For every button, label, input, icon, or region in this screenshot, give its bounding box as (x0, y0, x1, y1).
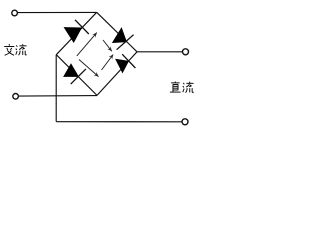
diode D3 (left-bottom edge): cathode bar (71, 69, 86, 84)
label glyph liu (AC label char 2) (16, 44, 27, 55)
wire: bottom rail to bottom-right DC terminal (56, 121, 182, 123)
terminal DC output bottom (182, 119, 188, 125)
diode D4 (bottom-right edge): cathode bar (122, 54, 135, 68)
current arrow through D3 (79, 60, 99, 77)
wire: bottom-left AC terminal to bottom node (crosses vertical wire) (18, 95, 97, 98)
diode D1 (left-top edge): triangle (64, 28, 81, 43)
label glyph jiao (AC label char 1) (4, 44, 14, 55)
terminal AC input top (12, 10, 18, 16)
diode D4 (bottom-right edge): triangle (116, 59, 129, 72)
label glyph liu (DC label char 2) (183, 82, 194, 93)
diode D2 (top-right edge): cathode bar (117, 35, 134, 50)
current arrow through D4 (102, 55, 114, 71)
current arrow through D1 (77, 33, 97, 56)
diode D2 (top-right edge): triangle (113, 28, 127, 43)
current arrow through D2 (103, 40, 112, 51)
terminal DC output top (183, 49, 189, 55)
bridge edge: top node to right node (97, 12, 137, 52)
diode D3 (left-bottom edge): triangle (64, 64, 79, 77)
diode D1 (left-top edge): cathode bar (75, 20, 89, 34)
bridge edge: left node to bottom node (56, 55, 97, 96)
label glyph zhi (DC label char 1) (170, 82, 181, 93)
wire: right node to top-right DC terminal (137, 51, 182, 53)
wire: top-left AC terminal to top node (17, 11, 96, 13)
wire: left node down to bottom rail (55, 55, 57, 122)
terminal AC input bottom (13, 94, 19, 100)
bridge edge: left node to top node (56, 12, 96, 54)
bridge edge: bottom node to right node (97, 52, 137, 96)
